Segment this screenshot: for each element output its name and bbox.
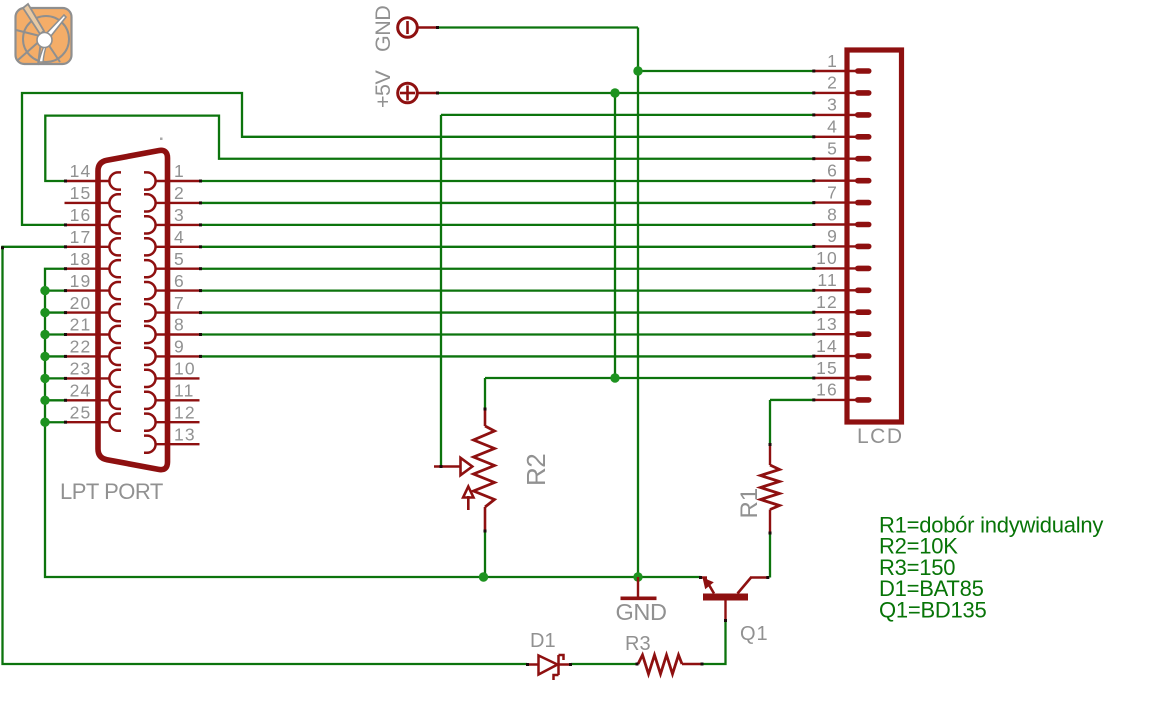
svg-text:20: 20 — [70, 293, 92, 313]
wire GND vertical bus — [637, 28, 639, 578]
pin 3 (LCD) — [815, 95, 872, 118]
power symbol +5V — [371, 69, 438, 108]
potentiometer R2 — [434, 408, 495, 532]
svg-text:15: 15 — [816, 358, 838, 378]
pin 18 (LPT) — [65, 249, 122, 277]
svg-text:1: 1 — [827, 51, 838, 71]
svg-text:2: 2 — [827, 73, 838, 93]
svg-text:16: 16 — [70, 205, 92, 225]
svg-text:23: 23 — [70, 359, 92, 379]
svg-text:10: 10 — [816, 248, 838, 268]
pin 17 (LPT) — [65, 227, 122, 255]
svg-text:3: 3 — [174, 205, 185, 225]
svg-text:4: 4 — [174, 227, 185, 247]
diode D1 (BAT85) — [527, 655, 571, 680]
svg-text:5: 5 — [827, 139, 838, 159]
svg-text:GND: GND — [371, 6, 395, 52]
transistor Q1 (BD135) — [700, 578, 769, 621]
wire R2 top vertical — [484, 378, 486, 408]
pin 8 (LCD) — [815, 204, 872, 227]
pin 13 (LCD) — [815, 314, 872, 337]
svg-text:8: 8 — [174, 315, 185, 335]
junction ground bus pin 19 — [40, 286, 49, 295]
connector origin mark — [160, 138, 163, 141]
note text (green values) — [879, 513, 1103, 623]
pin 14 (LCD) — [815, 336, 872, 359]
wire LCD pin 16 to R1 — [769, 400, 771, 444]
svg-text:8: 8 — [827, 204, 838, 224]
wire LPT pin 17 to diode D1 — [3, 247, 528, 664]
wire R1 to Q1 collector — [769, 534, 771, 578]
pin 23 (LPT) — [65, 359, 122, 387]
pin 11 (LCD) — [815, 270, 872, 293]
svg-text:GND: GND — [616, 599, 667, 625]
svg-text:4: 4 — [827, 117, 838, 137]
wire GND to LCD pin 1 — [638, 70, 815, 72]
svg-text:18: 18 — [70, 249, 92, 269]
junction +5V branch bottom — [610, 373, 619, 382]
svg-text:12: 12 — [816, 292, 838, 312]
connector X1 LPT PORT outline — [98, 150, 168, 469]
svg-text:Q1: Q1 — [740, 623, 769, 645]
svg-text:D1: D1 — [530, 630, 556, 652]
svg-text:6: 6 — [827, 161, 838, 181]
svg-text:Q1=BD135: Q1=BD135 — [879, 597, 986, 622]
svg-text:9: 9 — [174, 337, 185, 357]
wire LPT pin 14 to LCD pin 5 — [45, 116, 815, 181]
svg-text:24: 24 — [70, 381, 92, 401]
pin 8 (LPT) — [144, 315, 200, 343]
pin 6 (LCD) — [815, 161, 872, 184]
svg-text:17: 17 — [70, 227, 92, 247]
wire R2 wiper vertical — [440, 115, 442, 467]
svg-text:5: 5 — [174, 249, 185, 269]
wire ground bus pins 18-25 — [45, 269, 701, 577]
wire R2 top to LCD pin 15 — [485, 377, 815, 379]
wire ground spur pin 23 — [45, 377, 65, 379]
wire LPT pin 7 to LCD pin 12 — [200, 311, 815, 313]
pin 2 (LPT) — [144, 183, 200, 211]
junction R2 bottom on rail — [479, 572, 488, 581]
wire +5V to LCD pin 2 — [438, 92, 815, 94]
svg-text:14: 14 — [816, 336, 838, 356]
svg-text:11: 11 — [174, 381, 195, 401]
svg-text:9: 9 — [827, 226, 838, 246]
pin 19 (LPT) — [65, 271, 122, 299]
wire R2 bottom vertical — [484, 532, 486, 578]
svg-text:R2: R2 — [521, 454, 551, 486]
resistor R3 — [637, 655, 704, 674]
svg-text:LCD: LCD — [857, 425, 904, 448]
pin 12 (LCD) — [815, 292, 872, 315]
wire ground spur pin 25 — [45, 421, 65, 423]
svg-text:+5V: +5V — [371, 69, 395, 108]
svg-text:LPT PORT: LPT PORT — [60, 479, 163, 504]
svg-text:22: 22 — [70, 337, 92, 357]
svg-text:14: 14 — [70, 161, 92, 181]
wire LPT pin 4 to LCD pin 9 — [200, 246, 815, 248]
svg-text:15: 15 — [70, 183, 92, 203]
pin 5 (LPT) — [144, 249, 200, 277]
junction +5V branch top — [610, 88, 619, 97]
svg-text:10: 10 — [174, 359, 196, 379]
wire LPT pin 1 to LCD pin 6 — [200, 180, 815, 182]
wire GND top horizontal — [438, 26, 638, 28]
pin 11 (LPT) — [144, 381, 200, 409]
pin 9 (LPT) — [144, 337, 200, 365]
pin connection ticks — [1, 26, 815, 666]
svg-text:16: 16 — [816, 380, 838, 400]
wire LPT pin 9 to LCD pin 14 — [200, 355, 815, 357]
svg-text:3: 3 — [827, 95, 838, 115]
logo — [16, 4, 72, 65]
junction ground bus pin 20 — [40, 308, 49, 317]
wire LPT pin 16 to LCD pin 4 — [22, 93, 815, 225]
svg-text:19: 19 — [70, 271, 92, 291]
pin 13 (LPT) — [144, 424, 200, 452]
pin 1 (LCD) — [815, 51, 872, 74]
svg-text:R3: R3 — [625, 633, 651, 655]
svg-text:21: 21 — [70, 315, 92, 335]
wire LPT pin 8 to LCD pin 13 — [200, 333, 815, 335]
pin 6 (LPT) — [144, 271, 200, 299]
wire ground spur pin 24 — [45, 399, 65, 401]
pin 25 (LPT) — [65, 402, 122, 430]
wire LCD pin 16 horizontal — [770, 399, 815, 401]
svg-text:25: 25 — [70, 402, 92, 422]
wire LPT pin 5 to LCD pin 10 — [200, 268, 815, 270]
pin 7 (LCD) — [815, 182, 872, 205]
junction ground bus pin 21 — [40, 330, 49, 339]
wire ground spur pin 21 — [45, 333, 65, 335]
svg-text:11: 11 — [817, 270, 838, 290]
svg-text:7: 7 — [827, 182, 838, 202]
pin 4 (LCD) — [815, 117, 872, 140]
pin 12 (LPT) — [144, 402, 200, 430]
pin 10 (LPT) — [144, 359, 200, 387]
junction ground bus pin 25 — [40, 418, 49, 427]
pin 1 (LPT) — [144, 161, 200, 189]
svg-text:13: 13 — [174, 424, 196, 444]
wire R2 wiper to LCD pin 3 — [441, 114, 815, 116]
wire LPT pin 3 to LCD pin 8 — [200, 224, 815, 226]
pin 24 (LPT) — [65, 381, 122, 409]
junction ground bus pin 23 — [40, 374, 49, 383]
pin 16 (LCD) — [815, 380, 872, 403]
wire +5V branch down — [614, 93, 616, 378]
svg-text:12: 12 — [174, 402, 196, 422]
pin 22 (LPT) — [65, 337, 122, 365]
resistor R1 — [761, 444, 780, 534]
pin 20 (LPT) — [65, 293, 122, 321]
junction GND symbol on rail — [633, 572, 642, 581]
pin 7 (LPT) — [144, 293, 200, 321]
wire LPT pin 2 to LCD pin 7 — [200, 202, 815, 204]
junction ground bus pin 22 — [40, 352, 49, 361]
wire ground spur pin 20 — [45, 311, 65, 313]
pin 15 (LCD) — [815, 358, 872, 381]
pin 16 (LPT) — [65, 205, 122, 233]
svg-text:6: 6 — [174, 271, 185, 291]
pin 5 (LCD) — [815, 139, 872, 162]
pin 4 (LPT) — [144, 227, 200, 255]
pin 2 (LCD) — [815, 73, 872, 96]
wire LPT pin 6 to LCD pin 11 — [200, 289, 815, 291]
pin 15 (LPT) — [65, 183, 122, 211]
wire ground spur pin 22 — [45, 355, 65, 357]
pin 14 (LPT) — [65, 161, 122, 189]
svg-text:2: 2 — [174, 183, 185, 203]
svg-text:13: 13 — [816, 314, 838, 334]
wire ground spur pin 19 — [45, 289, 65, 291]
power symbol GND (top) — [371, 6, 438, 52]
wire D1 to R3 — [571, 663, 637, 665]
wire R3 to Q1 base — [703, 621, 726, 665]
ground symbol GND — [616, 577, 667, 625]
svg-text:7: 7 — [174, 293, 185, 313]
pin 9 (LCD) — [815, 226, 872, 249]
junction ground bus pin 24 — [40, 396, 49, 405]
pin 10 (LCD) — [815, 248, 872, 271]
svg-text:R1: R1 — [736, 488, 763, 519]
junction GND / LCD1 — [633, 66, 642, 75]
svg-text:1: 1 — [174, 161, 185, 181]
pin 21 (LPT) — [65, 315, 122, 343]
pin 3 (LPT) — [144, 205, 200, 233]
connector LCD outline — [847, 50, 902, 422]
